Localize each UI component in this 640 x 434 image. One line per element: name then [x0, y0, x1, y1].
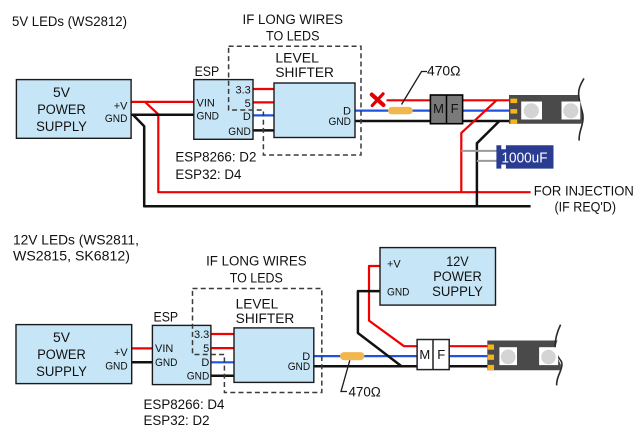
leader line for 470ohm label (bottom) [341, 360, 350, 391]
svg-text:SUPPLY: SUPPLY [432, 284, 483, 299]
svg-text:12V: 12V [446, 254, 468, 269]
capacitor C1 1000uF body [496, 145, 553, 168]
red X mark (do not connect 5V through) [372, 94, 384, 106]
svg-text:POWER: POWER [37, 347, 86, 362]
svg-text:F: F [437, 347, 445, 362]
svg-text:470Ω: 470Ω [349, 385, 381, 400]
LED strip torn edge curve (bottom) [555, 325, 562, 386]
svg-text:12V LEDs (WS2811,: 12V LEDs (WS2811, [13, 232, 139, 247]
wire red ESP 3.3 to level shifter [253, 88, 274, 90]
leader line for 470ohm label (top) [402, 72, 428, 105]
wire black ESP GND to level shifter (bottom) [211, 374, 234, 377]
svg-text:+V: +V [114, 347, 128, 359]
svg-text:ESP32: D2: ESP32: D2 [144, 413, 210, 428]
svg-text:M: M [419, 347, 430, 362]
LED strip torn edge curve (top) [579, 78, 584, 140]
svg-text:1000uF: 1000uF [502, 150, 548, 166]
svg-text:ESP: ESP [195, 64, 220, 79]
wire black ground: level shifter GND to strip (bottom) [314, 365, 490, 368]
dashed boundary box (top) [229, 46, 361, 155]
capacitor C1 lead - (gray) [477, 160, 501, 162]
power supply 5V box (bottom) [16, 325, 132, 384]
svg-text:GND: GND [155, 357, 178, 369]
strip pad GND (top) [510, 119, 517, 124]
svg-text:FOR INJECTION: FOR INJECTION [534, 183, 634, 198]
svg-text:GND: GND [387, 286, 410, 298]
wire red ESP 5 to level shifter (bottom) [211, 347, 234, 349]
svg-text:F: F [451, 101, 459, 116]
svg-text:POWER: POWER [433, 269, 482, 284]
svg-text:GND: GND [105, 113, 128, 125]
svg-text:M: M [433, 101, 444, 116]
wire red +5V stub from X to strip (top) [387, 99, 514, 101]
svg-text:470Ω: 470Ω [427, 64, 461, 79]
label IF LONG WIRES TO LEDS (top) [243, 12, 344, 44]
resistor R1 470ohm (top, on data line) [388, 107, 413, 114]
section title 12V LEDs (WS2811, WS2815, SK6812) [13, 232, 139, 263]
wire blue ESP D to level shifter [253, 114, 274, 116]
resistor R2 470ohm (bottom, on data line) [340, 352, 364, 360]
svg-text:VIN: VIN [155, 343, 173, 355]
svg-text:GND: GND [288, 361, 311, 373]
svg-text:POWER: POWER [37, 102, 86, 117]
svg-text:5V: 5V [53, 330, 70, 345]
wire black ground return branch: diagonal, vertical, horizontal [133, 115, 531, 207]
wire GND black: supply to ESP GND (bottom) [132, 361, 153, 364]
ESP module box (bottom) [152, 310, 211, 385]
svg-text:ESP8266: D4: ESP8266: D4 [144, 397, 226, 412]
strip pad GND (bottom) [488, 365, 494, 370]
wire red 12V supply +V to strip: elbow + diagonal [369, 266, 490, 346]
svg-text:GND: GND [105, 360, 128, 372]
svg-text:TO LEDS: TO LEDS [266, 29, 320, 44]
svg-text:SHIFTER: SHIFTER [236, 311, 295, 326]
svg-text:GND: GND [187, 371, 210, 383]
LED module 1 (top) [521, 102, 542, 120]
connector J1 M/F (top, gray) [430, 95, 462, 124]
wire GND black: supply to ESP GND (top) [131, 114, 194, 117]
svg-text:5: 5 [245, 98, 251, 110]
svg-text:GND: GND [197, 111, 220, 123]
svg-text:ESP: ESP [154, 310, 179, 325]
svg-text:+V: +V [114, 100, 128, 112]
note ESP8266: D2 / ESP32: D4 [175, 149, 256, 182]
svg-text:SUPPLY: SUPPLY [36, 364, 87, 379]
strip pad +12V (bottom) [488, 345, 494, 350]
wire blue data: level shifter D to strip (top) [355, 109, 513, 111]
svg-text:3.3: 3.3 [236, 85, 251, 97]
label IF LONG WIRES TO LEDS (bottom) [206, 254, 307, 286]
wire +V red: supply to ESP VIN (bottom) [132, 347, 153, 349]
wire red injection branch: diagonal, vertical, horizontal to FOR INJECTION [145, 102, 531, 192]
wire black 12V supply GND: elbow + diagonal to ground line [358, 291, 402, 366]
strip pad data (bottom) [488, 355, 494, 360]
svg-text:D: D [201, 357, 209, 369]
wire blue data: level shifter D to strip (bottom) [314, 355, 490, 357]
wire +V red: supply to ESP VIN (top) [131, 101, 194, 103]
LED module 1 (bottom) [499, 347, 517, 365]
wire blue ESP D to level shifter (bottom) [211, 361, 234, 363]
wire red injection riser to strip: vertical + diagonal [461, 100, 496, 192]
LED strip LS1 body (top) [509, 95, 583, 124]
svg-text:ESP8266: D2: ESP8266: D2 [175, 149, 256, 164]
svg-text:IF LONG WIRES: IF LONG WIRES [206, 254, 307, 269]
svg-text:IF LONG WIRES: IF LONG WIRES [243, 12, 344, 27]
label FOR INJECTION (IF REQ'D) [534, 183, 634, 214]
svg-text:LEVEL: LEVEL [236, 297, 279, 312]
note ESP8266: D4 / ESP32: D2 [144, 397, 226, 428]
svg-text:5: 5 [203, 343, 209, 355]
svg-text:+V: +V [387, 259, 401, 271]
svg-text:VIN: VIN [197, 98, 215, 110]
svg-text:(IF REQ'D): (IF REQ'D) [555, 199, 617, 214]
svg-text:3.3: 3.3 [194, 329, 209, 341]
wire red ESP 3.3 to level shifter (bottom) [211, 333, 234, 335]
wire red ESP 5 to level shifter [253, 101, 274, 103]
dashed boundary box (bottom) [193, 289, 322, 393]
power supply 5V box (top) [16, 80, 131, 139]
svg-text:5V LEDs (WS2812): 5V LEDs (WS2812) [12, 14, 127, 29]
svg-text:SUPPLY: SUPPLY [36, 119, 87, 134]
LED module 2 (top) [562, 102, 581, 120]
svg-text:5V: 5V [53, 85, 70, 100]
strip pad +5V (top) [510, 99, 517, 104]
strip pad data (top) [510, 109, 517, 114]
level shifter U2 box (top) [274, 50, 355, 137]
svg-text:WS2815, SK6812): WS2815, SK6812) [13, 248, 130, 263]
LED module 2 (bottom) [539, 347, 558, 365]
svg-text:ESP32: D4: ESP32: D4 [175, 167, 242, 182]
svg-text:LEVEL: LEVEL [275, 50, 319, 65]
svg-text:SHIFTER: SHIFTER [275, 65, 334, 80]
power supply 12V box [380, 248, 496, 306]
svg-text:GND: GND [228, 126, 251, 138]
capacitor C1 lead + (gray) [461, 150, 501, 152]
ESP module box (top) [194, 64, 253, 139]
connector J2 M/F (bottom, white) [417, 340, 449, 370]
wire black ground: level shifter GND to strip (top) [355, 120, 513, 123]
wire black ground riser from strip: diagonal + vertical [477, 121, 500, 206]
wire black ESP GND to level shifter [253, 129, 274, 132]
LED strip LS2 body (bottom) [487, 341, 561, 371]
svg-text:GND: GND [329, 116, 352, 128]
svg-text:TO LEDS: TO LEDS [230, 270, 283, 285]
level shifter U4 box (bottom) [234, 297, 314, 383]
svg-text:D: D [243, 111, 251, 123]
